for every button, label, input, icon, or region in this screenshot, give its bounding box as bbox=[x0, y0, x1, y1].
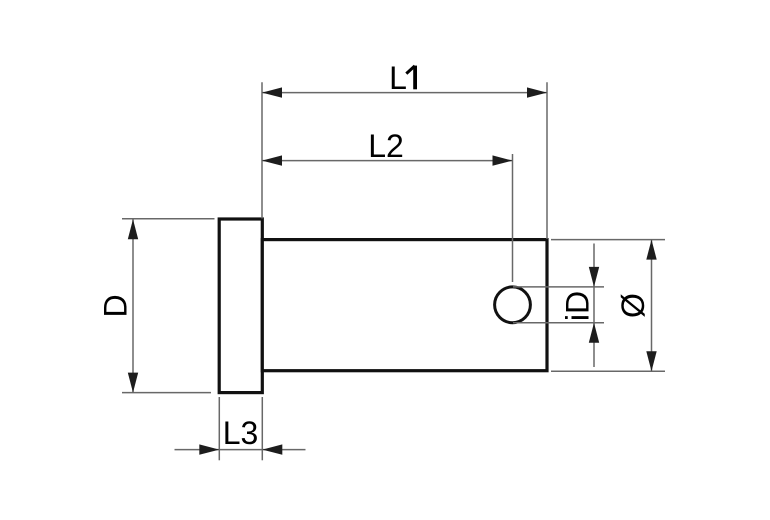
svg-text:Ø: Ø bbox=[615, 293, 651, 318]
extension line left (head right edge up) bbox=[261, 82, 263, 218]
svg-text:L: L bbox=[389, 60, 407, 96]
L3 right arrow bbox=[262, 444, 282, 454]
L2 left arrow bbox=[262, 155, 282, 165]
svg-text:D: D bbox=[97, 294, 133, 317]
extension line head top left bbox=[122, 218, 215, 220]
L1 left arrow bbox=[262, 87, 282, 97]
extension line body top right bbox=[551, 239, 665, 241]
L2 right arrow bbox=[493, 155, 513, 165]
dimension L1 line bbox=[262, 92, 547, 94]
extension line hole bottom bbox=[513, 322, 604, 324]
extension line hole top bbox=[513, 286, 604, 288]
pin head (flange) bbox=[219, 219, 262, 393]
svg-text:L3: L3 bbox=[223, 415, 259, 451]
L3 left arrow bbox=[199, 444, 219, 454]
extension line body bottom right bbox=[551, 370, 665, 372]
svg-text:iD: iD bbox=[559, 291, 595, 321]
svg-text:L2: L2 bbox=[368, 128, 404, 164]
D bottom arrow bbox=[128, 373, 138, 393]
D top arrow bbox=[128, 219, 138, 239]
dimension D line bbox=[132, 219, 134, 392]
dimension L3 line bbox=[175, 449, 306, 451]
iD bottom arrow bbox=[589, 323, 599, 343]
extension line head left bottom bbox=[218, 397, 220, 460]
L1 right arrow bbox=[527, 87, 547, 97]
diameter bottom arrow bbox=[646, 351, 656, 371]
iD top arrow bbox=[589, 267, 599, 287]
extension line head bottom left bbox=[122, 392, 211, 394]
extension line hole center up bbox=[512, 154, 514, 282]
extension line head right bottom bbox=[261, 397, 263, 460]
pin body (shank) bbox=[262, 240, 547, 371]
dimension L2 line bbox=[262, 160, 513, 162]
extension line right (body right edge up) bbox=[546, 82, 548, 239]
dimension diameter line bbox=[651, 240, 653, 372]
diameter top arrow bbox=[646, 240, 656, 260]
cross hole bbox=[495, 287, 531, 323]
dimension iD line bbox=[593, 244, 595, 368]
